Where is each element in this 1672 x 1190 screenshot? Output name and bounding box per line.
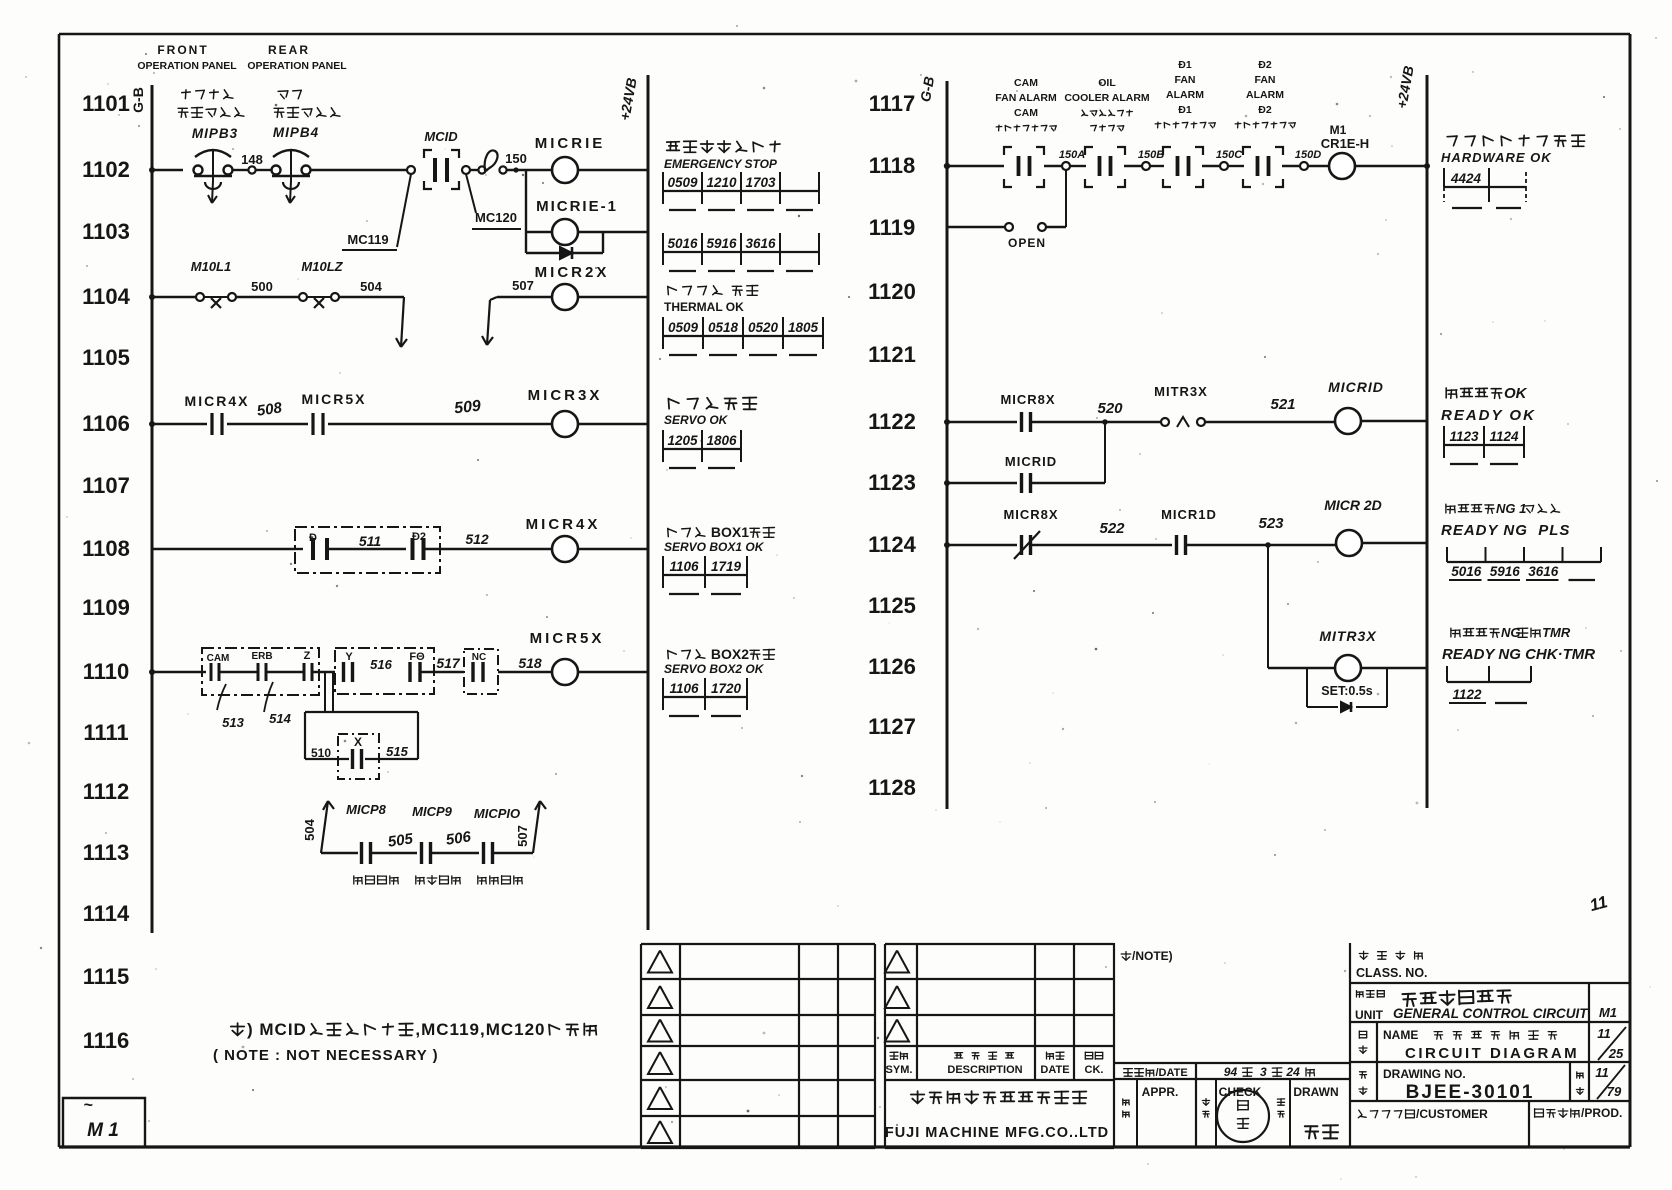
svg-text:1121: 1121 <box>868 342 916 367</box>
svg-text:GENERAL CONTROL CIRCUIT: GENERAL CONTROL CIRCUIT <box>1393 1006 1589 1021</box>
svg-text:FRONT: FRONT <box>157 43 208 57</box>
svg-text:ALARM: ALARM <box>1246 89 1284 101</box>
svg-text:94: 94 <box>1224 1065 1241 1079</box>
svg-text:1105: 1105 <box>82 345 130 370</box>
svg-text:SERVO BOX1 OK: SERVO BOX1 OK <box>664 540 765 554</box>
svg-text:MICR3X: MICR3X <box>528 387 603 404</box>
svg-text:CK.: CK. <box>1085 1064 1104 1076</box>
svg-text:MICR4X: MICR4X <box>185 393 250 409</box>
svg-text:/CUSTOMER: /CUSTOMER <box>1416 1107 1488 1121</box>
svg-text:FAN: FAN <box>1175 74 1196 86</box>
svg-text:506: 506 <box>445 828 473 848</box>
svg-text:M10L1: M10L1 <box>191 259 231 274</box>
svg-text:SYM.: SYM. <box>886 1064 913 1076</box>
svg-text:FUJI MACHINE MFG.CO..LTD: FUJI MACHINE MFG.CO..LTD <box>885 1125 1109 1141</box>
svg-text:521: 521 <box>1270 396 1295 413</box>
svg-text:Ð2: Ð2 <box>412 531 426 543</box>
svg-text:THERMAL OK: THERMAL OK <box>664 300 744 314</box>
svg-text:0509: 0509 <box>668 320 699 335</box>
svg-text:SET:0.5s: SET:0.5s <box>1321 684 1372 698</box>
svg-text:515: 515 <box>386 744 408 759</box>
svg-text:MCID: MCID <box>424 129 458 144</box>
svg-text:MICR5X: MICR5X <box>302 391 367 407</box>
svg-text:522: 522 <box>1099 520 1125 537</box>
svg-text:1123: 1123 <box>1449 429 1479 444</box>
svg-text:~: ~ <box>83 1097 93 1114</box>
svg-text:DATE: DATE <box>1040 1064 1069 1076</box>
svg-text:512: 512 <box>465 531 489 547</box>
svg-text:READY OK: READY OK <box>1441 407 1536 424</box>
svg-text:1124: 1124 <box>868 532 916 557</box>
svg-text:FAN ALARM: FAN ALARM <box>995 92 1057 104</box>
svg-text:25: 25 <box>1608 1046 1624 1061</box>
svg-text:1122: 1122 <box>868 409 916 434</box>
svg-text:511: 511 <box>359 533 382 549</box>
svg-text:ERB: ERB <box>251 651 272 662</box>
svg-text:MC119: MC119 <box>347 232 388 247</box>
svg-text:NAME: NAME <box>1383 1028 1418 1042</box>
svg-text:1106: 1106 <box>669 681 699 696</box>
svg-text:M1: M1 <box>1330 123 1347 137</box>
svg-text:1122: 1122 <box>1452 687 1482 702</box>
svg-text:MICRID: MICRID <box>1005 454 1057 469</box>
svg-text:507: 507 <box>512 278 534 293</box>
svg-text:516: 516 <box>370 657 392 672</box>
svg-text:1103: 1103 <box>82 219 130 244</box>
svg-text:1113: 1113 <box>83 840 130 865</box>
svg-text:OPEN: OPEN <box>1008 236 1046 250</box>
svg-text:1720: 1720 <box>711 681 742 696</box>
svg-text:1127: 1127 <box>868 714 916 739</box>
svg-text:5916: 5916 <box>706 236 737 251</box>
svg-text:1102: 1102 <box>82 157 130 182</box>
svg-text:1107: 1107 <box>82 473 130 498</box>
svg-text:HARDWARE OK: HARDWARE OK <box>1441 150 1552 165</box>
svg-text:MITR3X: MITR3X <box>1154 384 1208 399</box>
svg-text:0520: 0520 <box>748 320 779 335</box>
svg-text:Ð: Ð <box>309 532 317 544</box>
svg-text:Ð1: Ð1 <box>1178 104 1192 116</box>
svg-text:OPERATION PANEL: OPERATION PANEL <box>247 60 347 72</box>
svg-text:OIL: OIL <box>1098 77 1116 89</box>
svg-text:MICP9: MICP9 <box>412 804 453 819</box>
svg-text:1123: 1123 <box>868 470 916 495</box>
svg-text:MIPB3: MIPB3 <box>192 126 238 141</box>
svg-text:Ð2: Ð2 <box>1258 104 1272 116</box>
svg-text:,MC119,MC120: ,MC119,MC120 <box>415 1020 545 1039</box>
svg-text:11: 11 <box>1595 1065 1609 1080</box>
svg-text:505: 505 <box>387 830 415 850</box>
svg-text:BOX2: BOX2 <box>707 646 753 662</box>
svg-text:5016: 5016 <box>1451 564 1482 579</box>
svg-text:CAM: CAM <box>207 653 230 664</box>
svg-text:150D: 150D <box>1295 149 1321 161</box>
svg-text:BJEE-30101: BJEE-30101 <box>1406 1082 1535 1103</box>
svg-text:M10LZ: M10LZ <box>301 259 343 274</box>
svg-text:NG 1: NG 1 <box>1496 501 1526 516</box>
svg-text:1806: 1806 <box>706 433 737 448</box>
svg-text:1205: 1205 <box>667 433 698 448</box>
svg-text:Y: Y <box>345 651 353 663</box>
svg-text:1719: 1719 <box>711 559 742 574</box>
svg-text:NC: NC <box>472 652 486 663</box>
svg-text:1117: 1117 <box>869 91 916 116</box>
svg-text:1120: 1120 <box>868 279 916 304</box>
svg-text:MICR1D: MICR1D <box>1161 507 1217 522</box>
svg-text:1112: 1112 <box>83 779 130 804</box>
svg-text:COOLER ALARM: COOLER ALARM <box>1064 92 1150 104</box>
svg-text:TMR: TMR <box>1542 625 1571 640</box>
svg-text:FAN: FAN <box>1255 74 1276 86</box>
svg-text:MICP8: MICP8 <box>346 802 387 817</box>
svg-text:517: 517 <box>436 655 461 671</box>
svg-text:504: 504 <box>302 818 317 840</box>
svg-text:Z: Z <box>304 650 311 662</box>
svg-text:CLASS. NO.: CLASS. NO. <box>1356 966 1428 980</box>
svg-text:1116: 1116 <box>83 1028 130 1053</box>
svg-text:1110: 1110 <box>83 659 130 684</box>
svg-text:518: 518 <box>518 655 542 671</box>
svg-text:3: 3 <box>1253 1065 1270 1079</box>
svg-text:READY NG CHK·TMR: READY NG CHK·TMR <box>1442 646 1595 663</box>
svg-text:509: 509 <box>453 398 481 418</box>
svg-text:520: 520 <box>1097 400 1123 417</box>
svg-text:/PROD.: /PROD. <box>1581 1106 1622 1120</box>
svg-text:1104: 1104 <box>82 284 130 309</box>
svg-text:5016: 5016 <box>667 236 698 251</box>
svg-text:523: 523 <box>1258 515 1284 532</box>
svg-text:MICR8X: MICR8X <box>1003 507 1058 522</box>
svg-text:3616: 3616 <box>1528 564 1559 579</box>
svg-text:1126: 1126 <box>868 654 916 679</box>
svg-text:MIPB4: MIPB4 <box>273 125 319 140</box>
svg-text:4424: 4424 <box>1450 171 1482 186</box>
svg-text:OPERATION PANEL: OPERATION PANEL <box>137 60 237 72</box>
svg-text:150: 150 <box>505 151 527 166</box>
svg-text:5916: 5916 <box>1490 564 1521 579</box>
svg-text:1101: 1101 <box>82 91 130 116</box>
svg-text:/NOTE): /NOTE) <box>1132 949 1173 963</box>
svg-text:M 1: M 1 <box>87 1120 119 1141</box>
svg-text:DRAWN: DRAWN <box>1293 1085 1338 1099</box>
svg-text:ALARM: ALARM <box>1166 89 1204 101</box>
svg-text:150A: 150A <box>1059 149 1085 161</box>
svg-text:1805: 1805 <box>788 320 819 335</box>
svg-text:MICR2X: MICR2X <box>535 264 610 281</box>
svg-text:MICRIE-1: MICRIE-1 <box>536 198 618 215</box>
svg-text:MICR5X: MICR5X <box>530 630 605 647</box>
svg-text:DESCRIPTION: DESCRIPTION <box>947 1064 1022 1076</box>
svg-text:148: 148 <box>241 152 263 167</box>
svg-text:0518: 0518 <box>708 320 739 335</box>
svg-text:1108: 1108 <box>82 536 130 561</box>
svg-text:UNIT: UNIT <box>1355 1008 1384 1022</box>
svg-text:EMERGENCY STOP: EMERGENCY STOP <box>664 157 778 171</box>
svg-text:BOX1: BOX1 <box>707 524 753 540</box>
svg-text:MITR3X: MITR3X <box>1319 628 1377 644</box>
svg-text:513: 513 <box>222 715 244 730</box>
svg-text:REAR: REAR <box>268 43 310 57</box>
svg-text:1125: 1125 <box>868 593 916 618</box>
svg-text:24: 24 <box>1283 1065 1303 1079</box>
svg-text:G-B: G-B <box>130 87 146 113</box>
svg-text:3616: 3616 <box>745 236 776 251</box>
svg-text:510: 510 <box>311 746 331 760</box>
svg-text:1114: 1114 <box>83 901 130 926</box>
svg-text:SERVO BOX2 OK: SERVO BOX2 OK <box>664 662 765 676</box>
svg-text:MICR8X: MICR8X <box>1000 392 1055 407</box>
svg-text:1703: 1703 <box>745 175 776 190</box>
svg-text:DRAWING NO.: DRAWING NO. <box>1383 1067 1466 1081</box>
svg-text:1210: 1210 <box>706 175 737 190</box>
svg-text:504: 504 <box>360 279 382 294</box>
svg-text:READY NG PLS: READY NG PLS <box>1441 522 1570 539</box>
svg-text:( NOTE : NOT NECESSARY ): ( NOTE : NOT NECESSARY ) <box>213 1047 439 1064</box>
svg-text:MICRIE: MICRIE <box>535 135 606 152</box>
svg-text:508: 508 <box>256 399 284 419</box>
svg-text:MICR 2D: MICR 2D <box>1324 497 1382 513</box>
svg-text:1124: 1124 <box>1489 429 1519 444</box>
svg-text:1119: 1119 <box>869 215 916 240</box>
svg-text:MICRID: MICRID <box>1328 379 1384 395</box>
svg-text:MICR4X: MICR4X <box>526 516 601 533</box>
svg-text:CAM: CAM <box>1014 107 1038 119</box>
svg-text:500: 500 <box>251 279 273 294</box>
svg-text:CR1E-H: CR1E-H <box>1321 136 1369 151</box>
svg-text:1128: 1128 <box>868 775 916 800</box>
svg-text:1118: 1118 <box>869 153 916 178</box>
svg-text:Ð2: Ð2 <box>1258 59 1272 71</box>
svg-text:CIRCUIT DIAGRAM: CIRCUIT DIAGRAM <box>1405 1045 1579 1062</box>
svg-text:CAM: CAM <box>1014 77 1038 89</box>
svg-text:0509: 0509 <box>667 175 698 190</box>
svg-text:1109: 1109 <box>82 595 130 620</box>
svg-text:X: X <box>354 735 362 749</box>
svg-text:SERVO OK: SERVO OK <box>664 413 729 427</box>
svg-text:11: 11 <box>1597 1026 1611 1041</box>
svg-text:1115: 1115 <box>83 964 130 989</box>
svg-text:150B: 150B <box>1138 149 1164 161</box>
svg-text:/DATE: /DATE <box>1156 1067 1188 1079</box>
svg-text:1111: 1111 <box>83 720 128 745</box>
svg-text:1106: 1106 <box>669 559 699 574</box>
svg-text:1106: 1106 <box>82 411 130 436</box>
svg-text:MC120: MC120 <box>475 210 517 225</box>
svg-text:79: 79 <box>1607 1084 1622 1099</box>
svg-text:MICPIO: MICPIO <box>474 806 520 821</box>
svg-text:507: 507 <box>515 825 530 847</box>
svg-text:FΘ: FΘ <box>409 651 425 663</box>
svg-text:M1: M1 <box>1599 1005 1617 1020</box>
svg-text:Ð1: Ð1 <box>1178 59 1192 71</box>
svg-text:) MCID: ) MCID <box>247 1020 307 1039</box>
svg-text:APPR.: APPR. <box>1142 1085 1179 1099</box>
svg-text:OK: OK <box>1504 385 1528 402</box>
svg-text:514: 514 <box>269 711 291 726</box>
svg-text:150C: 150C <box>1216 149 1243 161</box>
